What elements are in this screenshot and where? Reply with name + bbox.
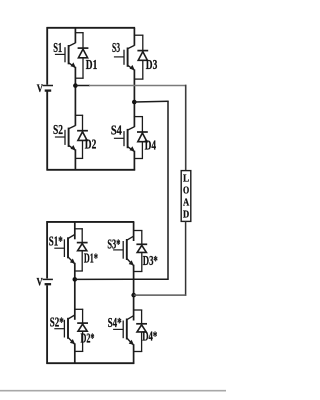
wire (S3* emitter lead) (133, 265, 135, 272)
svg-text:V: V (37, 274, 43, 288)
wire (S3-D3 bottom connector) (134, 78, 144, 80)
node B2 (lower bridge output b) (junction) (131, 293, 136, 298)
diode D1 (78, 32, 89, 78)
wire (S4* emitter lead) (133, 344, 135, 351)
diode D4* (136, 310, 147, 353)
wire (S1* emitter lead) (74, 263, 76, 271)
wire (upper bridge bottom rail) (47, 169, 136, 171)
wire (S2 emitter lead) (74, 149, 76, 158)
svg-text:D3*: D3* (143, 254, 158, 269)
svg-text:D1*: D1* (84, 251, 98, 266)
wire (node B2 to load bottom horizontal) (134, 294, 187, 296)
svg-text:D: D (183, 208, 189, 220)
transistor S3* (IGBT) (113, 236, 134, 265)
wire (S1-D1 top connector) (75, 32, 84, 34)
wire (S3 emitter lead) (133, 69, 135, 79)
svg-text:S1: S1 (53, 41, 62, 56)
wire (upper left leg: rail to S1 collector) (74, 28, 76, 43)
wire (lower left leg: rail to S1* collector) (74, 222, 76, 239)
wire (upper left leg to bottom rail) (74, 158, 76, 170)
diode D1* (77, 228, 88, 271)
wire (page rule at bottom of figure) (0, 390, 226, 392)
svg-text:S3*: S3* (107, 238, 120, 253)
svg-text:D3: D3 (146, 58, 158, 73)
wire (lower left leg: node A2 region) (74, 271, 76, 320)
svg-text:O: O (183, 184, 190, 196)
wire (S2* emitter lead) (74, 343, 76, 351)
wire (S3-D3 top connector) (134, 34, 144, 36)
wire (node A1 to load, horizontal run) (75, 85, 90, 87)
diode D3 (137, 35, 148, 80)
svg-text:V: V (37, 81, 43, 95)
svg-text:D2: D2 (85, 137, 97, 152)
svg-text:S4*: S4* (108, 316, 122, 331)
wire (lower bridge left rail, above battery) (46, 221, 48, 278)
node B1 (upper bridge output b) (junction) (132, 100, 137, 105)
svg-text:S3: S3 (112, 41, 120, 56)
wire (S2-D2 top connector) (75, 114, 83, 116)
wire (S3*-D3* top connector) (133, 230, 142, 232)
wire (upper bridge top rail) (47, 27, 136, 29)
wire (load top drop) (185, 85, 187, 171)
transistor S1* (IGBT) (54, 235, 75, 264)
diode D2* (77, 309, 88, 352)
wire (S2*-D2* top connector) (74, 308, 83, 310)
svg-text:S2*: S2* (50, 315, 64, 330)
wire (lower bridge left rail, below battery) (46, 285, 48, 364)
wire (S4-D4 top connector) (134, 116, 143, 118)
wire (series link horizontal to node A2) (75, 278, 169, 280)
wire (S4 emitter lead) (133, 151, 135, 159)
battery V1 (DC source V) (43, 86, 53, 91)
diode D3* (136, 230, 147, 272)
transistor S4 (IGBT) (114, 127, 135, 152)
wire (node B1 horizontal run) (134, 100, 168, 103)
load LOAD (181, 171, 191, 222)
transistor S2 (IGBT) (55, 126, 76, 151)
wire (lower right leg: rail to S3* collector) (133, 222, 135, 241)
svg-text:D4: D4 (145, 139, 157, 154)
node A2 (lower bridge output a) (junction) (73, 277, 78, 282)
node A1 (upper bridge output a) (junction) (73, 83, 78, 88)
svg-text:D2*: D2* (81, 332, 95, 347)
svg-text:D4*: D4* (142, 329, 157, 344)
wire (upper bridge left rail, below battery) (46, 91, 48, 170)
battery V2 (DC source V) (43, 279, 53, 284)
wire (S1*-D1* bottom connector) (74, 270, 83, 272)
wire (S3*-D3* bottom connector) (133, 271, 142, 273)
svg-text:A: A (183, 196, 189, 208)
wire (lower left leg to bottom rail) (74, 351, 76, 364)
wire (upper right leg to bottom rail) (133, 159, 135, 171)
wire (upper bridge left rail, above battery) (46, 27, 48, 85)
svg-text:S1*: S1* (49, 235, 63, 250)
wire (lower bridge bottom rail) (46, 362, 134, 364)
wire (S2*-D2* bottom connector) (74, 350, 83, 352)
wire (S1 emitter lead) (74, 67, 76, 78)
wire (lower right leg to bottom rail) (133, 352, 135, 364)
diode D4 (137, 116, 148, 159)
transistor S1 (IGBT) (55, 43, 76, 68)
wire (lower right leg: node B2 region) (133, 272, 135, 321)
transistor S3 (IGBT) (114, 45, 135, 70)
wire (series link vertical B1 to A2) (167, 101, 169, 279)
svg-text:S4: S4 (111, 123, 122, 138)
wire (lower bridge top rail) (46, 221, 134, 223)
wire (upper right leg: node B1 region) (133, 79, 135, 127)
svg-text:L: L (183, 172, 189, 184)
svg-text:D1: D1 (86, 58, 98, 73)
wire (S2-D2 bottom connector) (75, 157, 83, 159)
wire (S1*-D1* top connector) (74, 228, 83, 230)
transistor S2* (IGBT) (54, 315, 75, 344)
wire (S4-D4 bottom connector) (134, 158, 143, 160)
wire (load bottom drop) (185, 221, 187, 295)
svg-text:S2: S2 (53, 123, 63, 138)
wire (upper left leg: node A1 region) (74, 78, 76, 126)
wire (S1-D1 bottom connector) (75, 77, 84, 79)
diode D2 (77, 115, 88, 159)
wire (S4*-D4* top connector) (133, 309, 142, 311)
wire (upper right leg: rail to S3 collector) (133, 28, 135, 46)
transistor S4* (IGBT) (113, 316, 134, 345)
wire (S4*-D4* bottom connector) (133, 351, 142, 353)
